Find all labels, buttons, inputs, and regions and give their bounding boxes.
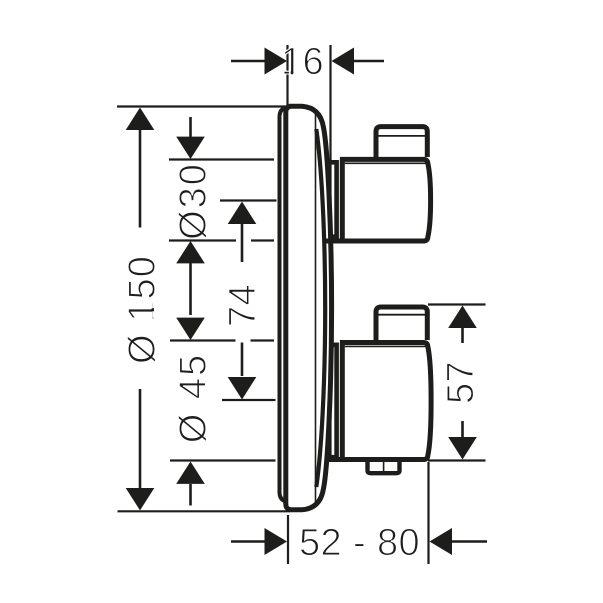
arrowhead D30 top: [176, 137, 205, 159]
svg-text:Ø 45: Ø 45: [173, 353, 215, 443]
dimension 52-80 tail left: [231, 540, 265, 543]
svg-text:74: 74: [222, 284, 264, 327]
arrowhead 57 bottom: [448, 437, 477, 460]
dimension D30 tail top: [189, 117, 192, 138]
escutcheon back flange (left outline): [280, 108, 288, 502]
dimension 16 extension line right: [329, 45, 331, 462]
dimension 74 extension bottom: [222, 399, 276, 401]
arrowhead 52-80 right: [430, 528, 453, 555]
arrowhead 16 left: [265, 48, 288, 75]
arrowhead D45 bottom: [176, 462, 205, 484]
svg-text:57: 57: [440, 361, 482, 404]
arrowhead 74 top: [228, 202, 257, 225]
escutcheon back flange right profile arc: [316, 129, 325, 487]
dimension D45 tail bottom: [189, 484, 192, 506]
svg-text:Ø 150: Ø 150: [122, 255, 164, 364]
arrowhead D30 bottom: [176, 241, 205, 263]
lower handle body: [325, 343, 431, 460]
dimension 52-80 extension right: [427, 462, 429, 564]
arrowhead D150 bottom: [126, 488, 155, 510]
dimension 74 extension top: [220, 199, 277, 201]
upper handle body: [325, 159, 431, 241]
upper handle cap ridge line: [379, 135, 426, 137]
stem restore: digit 1 of label D150: [151, 309, 154, 311]
arrowhead D45 top: [176, 318, 205, 340]
lower handle sleeve: [331, 343, 337, 458]
dimension 16 tail right: [353, 60, 384, 63]
lower handle cap: [376, 307, 427, 340]
dimension D30 extension bottom: [169, 239, 274, 241]
upper handle cap base line: [376, 158, 427, 160]
lower handle bottom tab: [368, 457, 400, 473]
upper handle cap: [376, 127, 427, 157]
dimension D30 extension top: [169, 158, 274, 160]
svg-text:52 - 80: 52 - 80: [299, 522, 420, 564]
dimension 74 tail bottom: [241, 343, 244, 377]
escutcheon front plate outline: [286, 106, 332, 510]
dimension D45 extension bottom: [170, 459, 276, 461]
lower handle cap ridge line: [379, 314, 426, 316]
arrowhead 57 top: [448, 306, 477, 329]
dimension 16 tail left: [231, 60, 265, 63]
lower handle tab divider: [383, 460, 385, 471]
dimension D150 line upper tail: [139, 128, 142, 228]
lower handle body chamfer line: [345, 345, 426, 347]
lower handle cap base line: [376, 341, 427, 343]
dimension 57 tail bottom: [461, 421, 464, 437]
dimension D45 extension top: [170, 339, 274, 341]
svg-text:Ø30: Ø30: [173, 162, 215, 240]
mask: foot of digit 1 in label D150: [152, 302, 154, 308]
dimension D150 extension bottom: [118, 510, 291, 512]
mask: foot of digit 1 in label 16: [289, 70, 291, 74]
upper handle sleeve: [331, 160, 337, 239]
dimension D150 line lower tail: [139, 389, 142, 490]
svg-text:16: 16: [281, 41, 324, 83]
dimension 57 extension top: [428, 303, 486, 305]
dimension 74 tail top: [241, 223, 244, 262]
arrowhead 74 bottom: [228, 377, 257, 400]
dimension D30/D45 shared tail: [189, 263, 192, 315]
upper handle body chamfer line: [345, 162, 426, 164]
dimension 52-80 extension left: [287, 515, 289, 564]
dimension 57 extension bottom: [428, 459, 486, 461]
escutcheon face crease line: [315, 114, 317, 503]
dimension 57 tail top: [461, 328, 464, 343]
dimension 52-80 tail right: [452, 540, 487, 543]
arrowhead D150 top: [126, 108, 155, 131]
dimension D150 extension top: [117, 105, 288, 107]
arrowhead 16 right: [332, 48, 355, 75]
stem restore: digit 1 of label 16: [291, 71, 293, 74]
arrowhead 52-80 left: [265, 528, 288, 555]
dimension 16 extension line left: [286, 45, 288, 106]
